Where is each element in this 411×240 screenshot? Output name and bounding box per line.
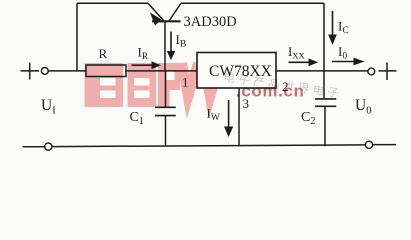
transistor base lead: [164, 21, 166, 71]
wire regulator output to terminal: [276, 70, 368, 72]
current arrow IW: [228, 100, 230, 128]
watermark EEPW letter P: [158, 63, 180, 107]
svg-text:2: 2: [282, 79, 289, 94]
svg-text:3: 3: [243, 96, 250, 111]
wire left riser: [76, 3, 78, 71]
watermark EEPW letter E2: [128, 63, 157, 107]
current arrow IC: [332, 11, 334, 35]
current arrow IB: [170, 32, 172, 53]
output terminal circle: [368, 68, 375, 75]
watermark EEPW letter W: [182, 63, 220, 97]
resistor R: [86, 65, 126, 77]
transistor Q1 base bar: [152, 20, 181, 22]
bottom rail stub right: [373, 144, 396, 146]
watermark EEPW letter E1: [85, 63, 124, 107]
wire resistor to regulator: [126, 70, 197, 72]
wire top rail right: [181, 2, 324, 4]
input terminal circle: [41, 68, 48, 75]
input terminal plus: [21, 63, 40, 80]
bottom rail: [52, 145, 366, 147]
regulator box white fill (under watermark text, over EEPW): [197, 53, 276, 89]
transistor Q1 collector: [169, 3, 181, 21]
svg-text:CW78XX: CW78XX: [209, 63, 272, 80]
capacitor C1 plates: [155, 107, 176, 115]
bottom rail stub left: [23, 146, 45, 148]
output terminal plus: [379, 63, 397, 81]
bottom terminal circle right: [365, 141, 372, 148]
svg-text:R: R: [99, 46, 108, 61]
capacitor C1 top lead: [165, 71, 167, 107]
regulator pin 3 lead: [238, 88, 240, 146]
wire top rail left: [77, 2, 148, 4]
capacitor C2 plates: [315, 99, 336, 106]
wire right riser / collector drop: [323, 3, 325, 99]
svg-text:1: 1: [182, 75, 189, 90]
capacitor C1 bottom lead: [165, 116, 167, 147]
current arrow IXX: [289, 61, 311, 63]
current arrow I0: [332, 61, 355, 63]
capacitor C2 bottom lead: [324, 106, 326, 146]
current arrow IR: [132, 64, 154, 66]
regulator U1 CW78XX box: [197, 53, 276, 89]
svg-text:3AD30D: 3AD30D: [184, 14, 237, 30]
bottom terminal circle left: [45, 143, 52, 150]
transistor Q1 emitter: [148, 3, 164, 20]
wire input to resistor: [48, 70, 86, 72]
transistor Q1 emitter arrowhead: [150, 13, 162, 26]
